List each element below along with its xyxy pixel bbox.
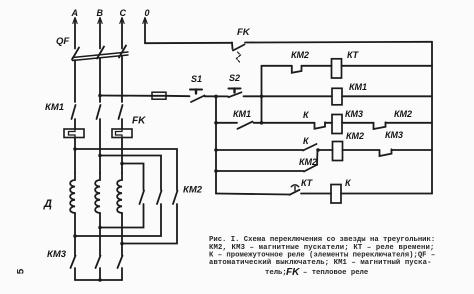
motor winding B <box>95 173 100 213</box>
wire phase C KM1 to FK <box>121 119 123 129</box>
right bus <box>431 42 433 194</box>
wire row3 KM1 coil rung <box>262 95 333 97</box>
wire winding C bottom to KM3 <box>121 213 123 256</box>
wire KM3 pole B to star bar <box>99 268 101 280</box>
contactor coil KM2 <box>333 142 343 161</box>
node N1 <box>214 95 218 99</box>
relay coil K <box>331 185 341 204</box>
left bus <box>215 96 217 193</box>
svg-text:– тепловое реле: – тепловое реле <box>303 269 368 277</box>
svg-text:КМ3: КМ3 <box>47 249 67 260</box>
wire FK contact to right bus <box>245 41 432 44</box>
wire row4 to KM3 coil <box>325 122 332 124</box>
contactor KM3 pole B contact <box>96 256 101 269</box>
wire KM2 pole 3 to winding C bottom <box>122 204 177 244</box>
svg-text:КМ2: КМ2 <box>394 109 412 119</box>
wire row6 to K coil <box>301 193 331 195</box>
svg-text:КТ: КТ <box>347 50 360 60</box>
wire row5b KM2 latch <box>216 170 304 172</box>
node control tap on phase B <box>98 94 102 98</box>
node N2 vertical link <box>261 66 263 123</box>
wire KM2 coil to KM3 NC <box>343 149 380 151</box>
wire KT coil to right bus <box>342 65 433 67</box>
wire fuse to S1 <box>166 95 190 97</box>
wire row4 to right bus <box>386 122 433 124</box>
svg-text:КМ1: КМ1 <box>233 109 251 119</box>
pushbutton S2 start <box>229 89 242 98</box>
wire row5 start <box>216 149 303 151</box>
wire row5 to right bus <box>392 149 433 151</box>
svg-text:S2: S2 <box>229 73 240 83</box>
wire KM3 pole A to star bar <box>74 268 76 280</box>
wire latch riser <box>316 150 319 165</box>
svg-text:КМ2: КМ2 <box>299 157 317 167</box>
contact KM3 NC row5 <box>380 149 392 156</box>
contactor KM2 pole 1 contact <box>140 191 145 205</box>
caption line 5 <box>265 267 368 278</box>
neutral terminal 0 arrow <box>143 18 147 44</box>
wire row2 start <box>262 65 292 67</box>
contactor coil KM1 <box>332 88 342 105</box>
wire phase C QF to KM1 <box>121 56 123 102</box>
wire K coil to right bus <box>341 193 432 195</box>
contactor KM2 pole 2 contact <box>157 191 162 205</box>
thermal relay FK NC contact <box>232 43 245 63</box>
node row5 latch <box>316 148 320 152</box>
svg-text:КТ: КТ <box>301 178 314 188</box>
contactor KM1 pole B contact <box>97 105 101 119</box>
circuit breaker QF pole A blade <box>72 48 79 60</box>
svg-text:B: B <box>97 8 104 18</box>
svg-text:КМ2: КМ2 <box>291 50 309 60</box>
wire phase C FK to winding <box>121 138 123 174</box>
svg-text:5: 5 <box>17 268 28 274</box>
node winding A bottom <box>73 234 77 238</box>
svg-text:FK: FK <box>286 267 300 278</box>
contactor KM3 pole A contact <box>71 256 76 269</box>
svg-text:автоматический выключатель; КМ: автоматический выключатель; КМ1 – магнит… <box>209 258 432 267</box>
pushbutton S1 stop <box>190 90 205 103</box>
svg-text:КМ3: КМ3 <box>385 130 403 140</box>
wire row5 to KM2 coil <box>318 149 333 151</box>
relay coil KT <box>332 59 342 78</box>
wire phase A KM1 to FK <box>74 119 76 129</box>
wire phase B KM1 to winding <box>99 119 101 173</box>
wire KM3 pole C to star bar <box>121 268 123 280</box>
wire S1 to N1 <box>205 95 229 97</box>
node N2 <box>260 95 264 99</box>
node delta tap C <box>120 162 124 166</box>
wire KM3 coil to KM2 NC <box>342 122 374 124</box>
svg-text:КМ1: КМ1 <box>349 82 367 92</box>
wire winding B bottom to KM3 <box>99 213 101 256</box>
wire delta A to KM2 pole 3 <box>75 149 177 190</box>
node left bus row4 <box>214 121 218 125</box>
svg-text:тель;: тель; <box>265 269 287 277</box>
motor winding C <box>117 173 122 213</box>
svg-text:КМ2: КМ2 <box>183 185 203 196</box>
thermal relay FK heater C <box>112 129 132 138</box>
phase terminal A arrow <box>73 18 77 49</box>
wire delta B to KM2 pole 2 <box>100 156 161 191</box>
contactor coil KM3 <box>332 115 342 134</box>
circuit breaker QF pole B blade <box>97 47 104 59</box>
wire phase B QF to KM1 <box>99 58 101 102</box>
svg-text:FK: FK <box>132 116 146 127</box>
motor winding A <box>70 173 75 213</box>
node N2 lower <box>260 121 264 125</box>
contactor KM1 pole A contact <box>72 105 76 119</box>
wire winding A bottom to KM3 <box>74 213 76 256</box>
wire phase A QF to KM1 <box>74 60 76 102</box>
wire phase A FK to winding <box>74 138 76 174</box>
wire row4 start <box>216 122 237 124</box>
circuit breaker QF pole C blade <box>119 46 126 58</box>
wire neutral to FK contact <box>145 42 232 44</box>
svg-text:FK: FK <box>237 27 251 38</box>
thermal relay FK heater A <box>64 129 84 138</box>
wire row4 KM1 contact to K contact <box>254 122 315 124</box>
svg-text:Рис. I. Схема переключения со: Рис. I. Схема переключения со звезды на … <box>209 236 435 244</box>
contact KM2 NC row4 <box>374 122 386 129</box>
svg-text:КМ2: КМ2 <box>346 131 364 141</box>
wire delta C to KM2 pole 1 <box>122 164 144 191</box>
svg-text:0: 0 <box>145 8 150 18</box>
svg-text:Д: Д <box>43 198 52 210</box>
svg-text:КМ3: КМ3 <box>345 109 363 119</box>
QF linkage bar <box>73 52 129 61</box>
contact KM2 NO latch <box>304 165 317 172</box>
node delta tap A <box>73 147 77 151</box>
contact KT time delay row6 <box>290 185 300 195</box>
contactor KM1 pole C contact <box>119 105 123 119</box>
node left bus row5b <box>214 169 218 173</box>
phase terminal B arrow <box>98 18 102 49</box>
phase terminal C arrow <box>120 18 124 49</box>
node winding B bottom <box>98 226 102 230</box>
node winding C bottom <box>120 242 124 246</box>
wire KM2 pole 2 to winding A bottom <box>75 204 161 236</box>
node star point <box>98 278 102 282</box>
wire control feed to fuse <box>100 95 152 97</box>
wire KM1 coil to right bus <box>342 95 432 97</box>
wire row2 to KT coil <box>302 65 332 67</box>
node left bus row5 <box>214 148 218 152</box>
svg-text:S1: S1 <box>191 74 202 84</box>
star point bar <box>75 279 122 281</box>
wire row6 start <box>216 194 290 195</box>
fuse FU <box>152 92 166 99</box>
node delta tap B <box>98 154 102 158</box>
wire KM2 pole 1 to winding B bottom <box>100 204 144 228</box>
wire S2 to N2 <box>244 95 262 97</box>
contact K NC row4 <box>315 122 326 129</box>
svg-text:QF: QF <box>56 36 69 47</box>
contact KM1 NO row4 <box>238 122 253 129</box>
svg-text:A: A <box>71 8 79 18</box>
svg-text:КМ1: КМ1 <box>45 102 64 113</box>
svg-text:C: C <box>120 8 127 18</box>
contactor KM2 pole 3 contact <box>173 191 178 205</box>
contact KM2 NC row2 <box>292 66 302 73</box>
contactor KM3 pole C contact <box>118 256 123 269</box>
contact K NO row5 <box>303 144 317 151</box>
